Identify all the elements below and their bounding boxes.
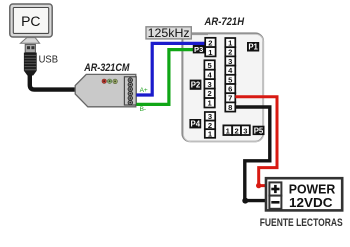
wire USB cable (30, 75, 77, 90)
connector P1 pins 1-8 (225, 38, 235, 112)
svg-text:FUENTE LECTORAS: FUENTE LECTORAS (260, 217, 343, 229)
connector P1 label (247, 42, 259, 52)
svg-text:P1: P1 (248, 42, 258, 51)
connector P3 pins (205, 38, 215, 57)
wire blue A+ to P3 pin2 (136, 43, 204, 95)
svg-text:3: 3 (207, 80, 211, 89)
svg-text:7: 7 (228, 94, 232, 103)
svg-text:USB: USB (39, 53, 58, 65)
LED green 1 (107, 79, 111, 83)
svg-text:P3: P3 (194, 45, 203, 54)
connector P4 pins 3-1 (205, 112, 215, 138)
svg-text:2: 2 (228, 48, 232, 57)
USB plug (24, 44, 37, 75)
connector P5 pins 1-3 (223, 125, 249, 135)
wire black P1 pin8 to - (235, 107, 269, 201)
svg-text:2: 2 (207, 89, 211, 98)
svg-text:125kHz: 125kHz (148, 26, 190, 40)
svg-text:2: 2 (234, 126, 238, 135)
svg-text:A+: A+ (140, 87, 148, 94)
svg-text:3: 3 (243, 126, 247, 135)
wire green B- to P3 pin1 (136, 50, 204, 105)
svg-text:6: 6 (228, 85, 232, 94)
terminal - (269, 196, 281, 209)
connector P2 pins 5-1 (204, 60, 214, 107)
converter U1 body (75, 74, 136, 106)
terminal + (269, 182, 281, 195)
callout 125kHz (146, 26, 208, 40)
svg-text:B-: B- (140, 106, 147, 113)
svg-text:PC: PC (21, 14, 40, 30)
svg-text:P2: P2 (191, 81, 201, 90)
junction black (242, 198, 248, 204)
wire red P1 pin7 to + (235, 97, 277, 186)
LED red (102, 79, 106, 83)
svg-text:AR-321CM: AR-321CM (83, 62, 130, 74)
svg-text:3: 3 (228, 57, 232, 66)
PC monitor (10, 4, 52, 37)
LED green 2 (113, 79, 118, 84)
svg-text:8: 8 (228, 103, 232, 112)
monitor stand (20, 38, 39, 44)
connector P4 label (189, 119, 201, 128)
svg-text:2: 2 (208, 39, 212, 48)
svg-text:AR-721H: AR-721H (204, 16, 245, 28)
power supply box (266, 178, 342, 210)
junction red (256, 183, 261, 188)
connector P2 label (190, 80, 202, 90)
terminal block TB1 (124, 77, 136, 105)
connector P5 label (253, 126, 265, 135)
connector P3 label (193, 45, 205, 53)
svg-text:P4: P4 (191, 120, 201, 129)
svg-text:12VDC: 12VDC (289, 195, 333, 210)
board AR-721H (182, 33, 263, 141)
svg-text:P5: P5 (254, 126, 264, 135)
